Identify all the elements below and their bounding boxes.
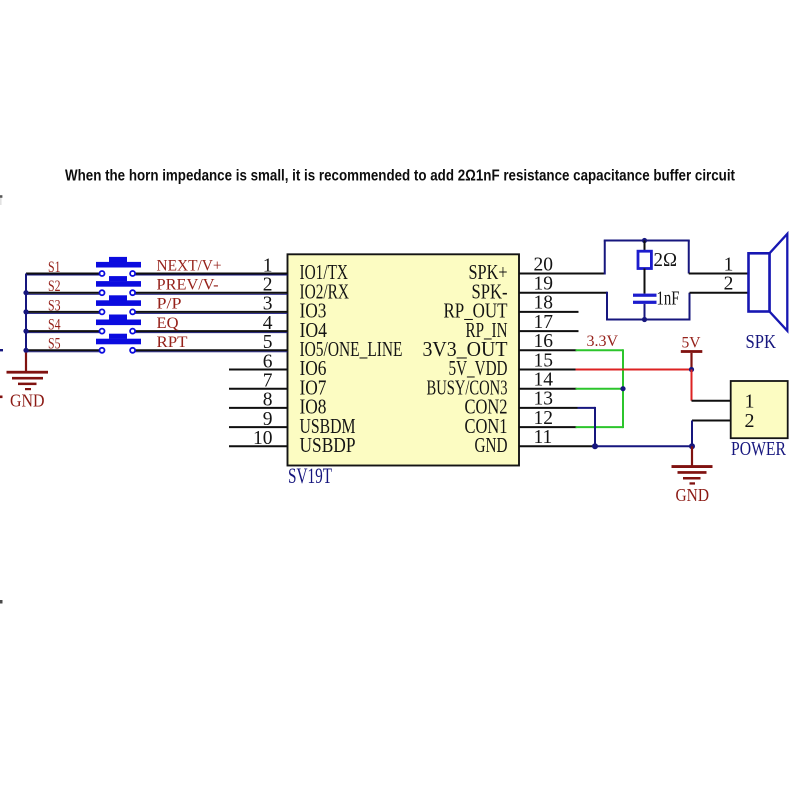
svg-text:18: 18 [534,293,554,314]
svg-text:1: 1 [745,390,755,412]
svg-text:RPT: RPT [157,334,189,351]
wire S4 right [135,331,288,333]
junction top rail [642,238,647,243]
IC U1 body [288,254,520,465]
wire pin19 down [606,292,608,320]
switch S5 [96,334,141,353]
wire S2 right [135,293,288,295]
capacitor C 1nF [633,294,657,304]
svg-text:1: 1 [724,254,734,275]
svg-text:GND: GND [10,391,45,411]
wire resistor lead top [644,241,646,252]
wire gnd stem right [691,446,693,465]
watermark fragment [0,195,2,205]
wire pin 8 stub [229,407,288,409]
wire pin12 stub [519,426,577,428]
switch S4 [96,315,141,334]
wire 5v horizontal [576,369,692,371]
switch S3 [96,295,141,314]
svg-text:S4: S4 [48,317,61,334]
wire gnd rail [595,445,692,447]
wire pin14 stub [519,388,577,390]
wire S5 right [135,350,288,352]
wire pin13 stub [519,407,578,409]
junction 5v [689,367,694,372]
svg-text:SV19T: SV19T [288,463,332,488]
wire S1 left [26,274,100,276]
svg-text:POWER: POWER [731,438,787,460]
switch S2 [96,276,141,295]
watermark dash 2 [0,396,3,399]
svg-text:11: 11 [534,427,553,448]
speaker SPK symbol [749,234,788,331]
wire S3 right [135,312,288,314]
wire pin18 stub [519,311,579,313]
svg-text:16: 16 [534,331,554,352]
wire pin 9 stub [229,426,288,428]
svg-text:19: 19 [534,274,554,295]
junction gnd rail right [689,443,695,449]
svg-text:1nF: 1nF [657,288,680,310]
switch S1 [96,257,141,276]
svg-text:EQ: EQ [157,315,179,332]
watermark dash 3 [0,600,3,604]
junction bottom rail [642,317,647,322]
wire pin 6 stub [229,369,288,371]
wire pin 7 stub [229,388,288,390]
resistor R 2ohm [638,251,651,268]
svg-text:S2: S2 [48,278,61,295]
wire power pin2 [692,420,731,422]
junction gnd rail left [592,443,598,449]
wire cap lead bottom [644,304,646,320]
wire 5v down [691,370,693,401]
wire SPK pin2 [690,292,749,294]
svg-text:2Ω: 2Ω [654,249,678,271]
wire 3v3 b [576,388,624,390]
wire 3v3 a [576,349,624,351]
junction bus S4 [23,329,28,334]
svg-text:When the horn impedance is sma: When the horn impedance is small, it is … [65,168,735,185]
wire 3v3 c [576,426,624,428]
power flag 5V [681,350,703,369]
wire rail to SPK2 [689,293,691,320]
svg-text:3.3V: 3.3V [587,333,619,350]
wire S1 right [135,274,288,276]
svg-text:12: 12 [534,408,554,429]
wire top rail [604,240,690,242]
svg-text:15: 15 [534,350,554,371]
wire SPK pin1 [689,273,749,275]
svg-text:NEXT/V+: NEXT/V+ [157,257,222,274]
svg-text:14: 14 [534,370,554,391]
wire S2 left [26,293,100,295]
wire S4 left [26,331,100,333]
wire pin16 stub [519,349,577,351]
junction bus S3 [23,309,28,314]
svg-text:5V: 5V [682,335,702,352]
wire power pin2 down [691,421,693,447]
svg-text:SPK: SPK [746,331,777,353]
svg-text:GND: GND [676,485,710,505]
junction bus S2 [23,290,28,295]
wire pin13 navy [578,407,596,409]
svg-text:PREV/V-: PREV/V- [157,277,219,294]
ground GND left [7,371,49,390]
wire pin19 stub [519,292,607,294]
svg-text:S5: S5 [48,336,61,353]
svg-text:20: 20 [534,254,554,275]
watermark dash [0,349,3,351]
junction bus S5 [23,348,28,353]
wire pin17 stub [519,330,579,332]
wire pin 10 stub [229,445,288,447]
svg-text:USBDP: USBDP [300,433,356,457]
wire to power pin1 [692,400,731,402]
wire rail to SPK1 [688,241,690,274]
wire S3 left [26,312,100,314]
wire gnd stem left [25,353,27,372]
wire resistor-cap lead [644,269,646,294]
svg-text:S1: S1 [48,259,61,276]
junction 3v3 [620,386,625,391]
wire pin20 stub [519,273,605,275]
wire pin13 down [594,407,596,446]
svg-text:S3: S3 [48,297,61,314]
ground GND right [672,465,713,484]
svg-text:GND: GND [475,433,508,457]
wire pin11 stub [519,445,595,447]
wire bottom rail [606,319,691,321]
wire 3v3 vertical [622,349,624,428]
svg-text:2: 2 [724,273,734,294]
svg-text:2: 2 [745,410,755,432]
wire left bus [25,274,27,353]
wire pin15 stub [519,369,577,371]
connector POWER body [731,381,788,438]
wire pin20 up [604,241,606,275]
svg-text:13: 13 [534,389,554,410]
wire S5 left [26,350,100,352]
svg-text:P/P: P/P [157,296,182,313]
svg-text:17: 17 [534,312,554,333]
